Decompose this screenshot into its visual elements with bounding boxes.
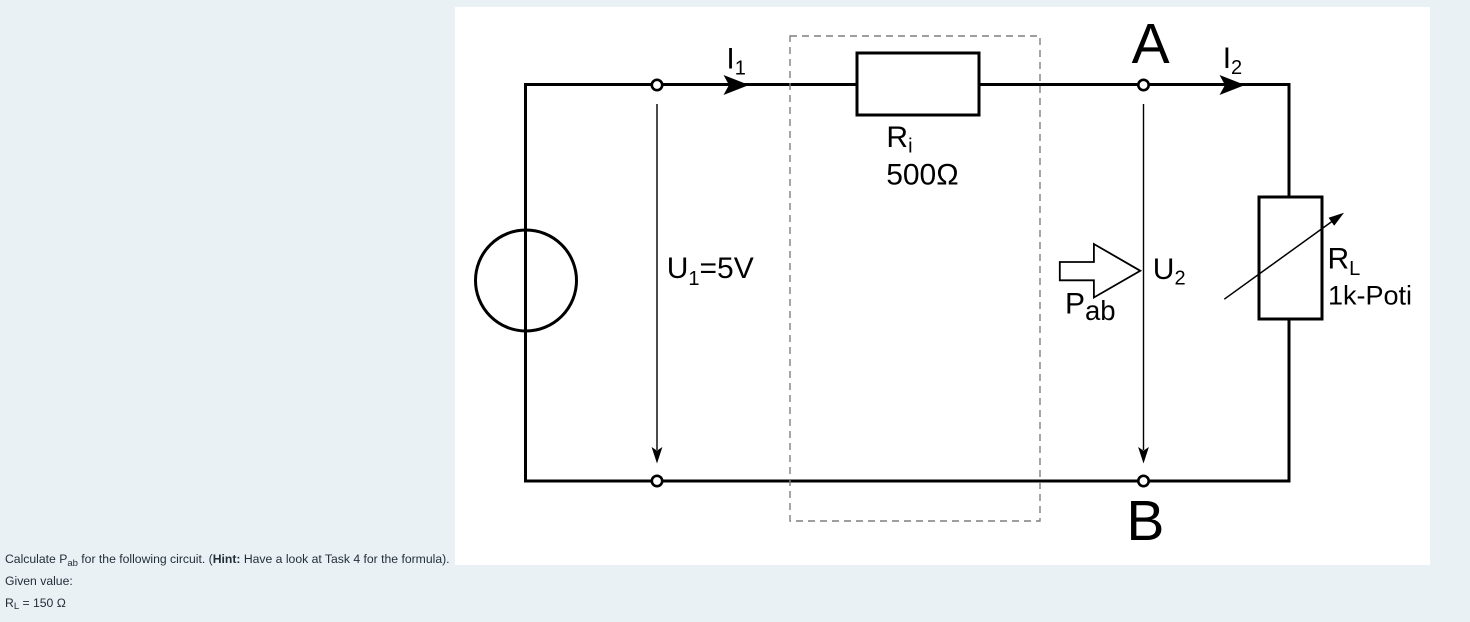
svg-text:I2: I2 <box>1223 42 1242 79</box>
svg-text:U1=5V: U1=5V <box>667 252 754 290</box>
svg-text:B: B <box>1126 489 1164 553</box>
svg-text:A: A <box>1132 12 1170 76</box>
svg-text:I1: I1 <box>726 42 745 79</box>
svg-text:Pab: Pab <box>1065 288 1116 326</box>
svg-text:500Ω: 500Ω <box>886 159 958 192</box>
svg-text:RL: RL <box>1328 242 1361 280</box>
svg-text:Ri: Ri <box>886 121 912 157</box>
svg-text:U2: U2 <box>1153 253 1186 290</box>
svg-text:1k-Poti: 1k-Poti <box>1328 281 1412 311</box>
